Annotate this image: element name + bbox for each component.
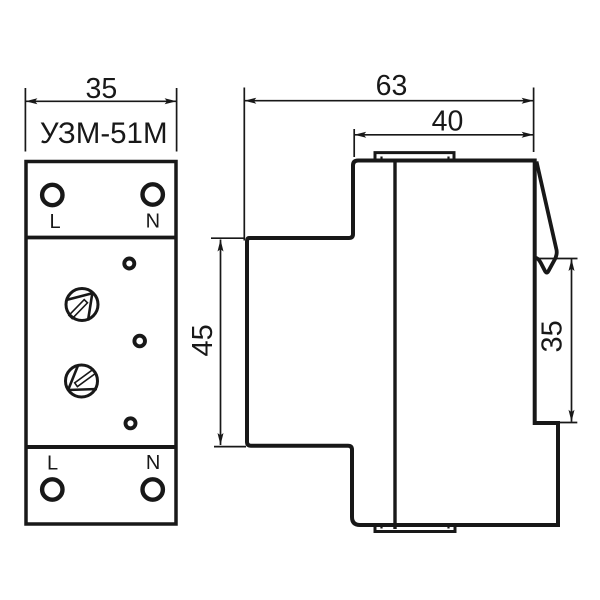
svg-text:35: 35 (536, 320, 568, 352)
indicator hole 2 (134, 336, 145, 347)
front view body outline (26, 162, 176, 525)
divider bottom terminal block (26, 445, 176, 449)
svg-text:L: L (47, 453, 58, 475)
dimension 63 (total depth) (244, 88, 533, 241)
indicator hole 1 (124, 259, 134, 269)
side view body outline (247, 161, 558, 526)
terminal N top (143, 184, 163, 204)
svg-text:45: 45 (187, 324, 219, 356)
terminal L bottom (42, 479, 62, 499)
dimension 45 (front part height) (211, 238, 246, 446)
dimension 40 (body depth) (354, 129, 533, 157)
indicator hole 3 (126, 418, 136, 428)
dimension 35 (front width) (25, 88, 176, 152)
svg-text:N: N (146, 211, 160, 233)
top DIN clip tab (375, 153, 454, 161)
svg-text:L: L (49, 211, 60, 233)
DIN rail release hook (536, 162, 557, 273)
divider top terminal block (26, 236, 176, 240)
screw 2 (66, 365, 98, 397)
terminal N bottom (143, 479, 163, 499)
svg-text:УЗМ-51М: УЗМ-51М (40, 117, 168, 150)
dimension 35 (DIN rail height) (536, 259, 578, 423)
internal front edge line (393, 161, 396, 530)
svg-text:40: 40 (432, 106, 464, 138)
screw 1 (66, 289, 98, 321)
svg-text:35: 35 (86, 73, 118, 105)
terminal L top (42, 185, 62, 205)
bottom DIN clip tab (375, 525, 455, 532)
svg-text:N: N (146, 452, 160, 474)
svg-text:63: 63 (376, 70, 408, 102)
